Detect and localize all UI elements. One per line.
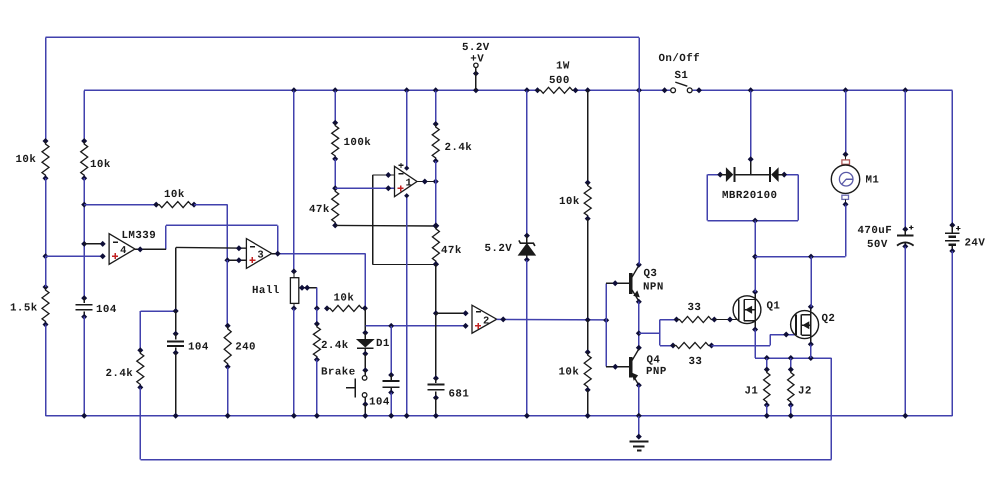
wire comp3 minus input bbox=[176, 246, 247, 249]
svg-text:5.2V: 5.2V bbox=[485, 243, 513, 255]
value label 240 bbox=[235, 341, 256, 353]
wire comp1 output bbox=[417, 181, 436, 183]
svg-text:3: 3 bbox=[257, 250, 263, 262]
pin dot Q4 emitter bbox=[636, 382, 642, 388]
wire comp3 plus input bbox=[227, 259, 246, 261]
capacitor 104 (throttle filter) bbox=[383, 372, 400, 396]
pin dot comp4 minus bbox=[100, 241, 106, 247]
junction comp1 plus tap bbox=[332, 185, 338, 191]
power pin + glyph bbox=[399, 163, 404, 168]
transistor Q4 PNP bbox=[631, 349, 639, 385]
transistor Q3 NPN bbox=[631, 266, 640, 302]
resistor 2.4k (sense divider) bbox=[137, 347, 144, 390]
pin dot comp1 gnd bbox=[404, 193, 409, 198]
svg-text:1.5k: 1.5k bbox=[10, 303, 38, 315]
value label 33 bbox=[689, 356, 703, 368]
wire comp3 output bbox=[272, 253, 366, 255]
value label 100k bbox=[344, 137, 372, 149]
svg-text:Q1: Q1 bbox=[767, 300, 781, 312]
pin dot Q1 drain bbox=[752, 289, 758, 295]
wire comp1 minus loop bbox=[373, 175, 436, 265]
resistor 2.4k (hall load) bbox=[313, 321, 320, 363]
wire 240 chain down bbox=[226, 260, 228, 326]
wire comp2 output bbox=[497, 318, 607, 321]
wire comp2-plus node to cap 104 bbox=[390, 326, 392, 375]
battery 24V bbox=[945, 222, 960, 254]
svg-text:681: 681 bbox=[449, 388, 470, 400]
part label Q2 bbox=[822, 313, 836, 325]
value label 104 bbox=[369, 397, 390, 409]
label +V bbox=[470, 54, 484, 66]
svg-text:5.2V: 5.2V bbox=[462, 42, 490, 54]
wire 2.4k pullup from bus bbox=[435, 90, 437, 124]
resistor 500 1W (supply dropper) bbox=[535, 87, 579, 93]
node comp4 minus input tap bbox=[81, 241, 87, 247]
wire 240 to rail bbox=[227, 367, 229, 416]
wire MBR bottom to Q1 drain bbox=[754, 221, 756, 292]
wire bus after 500 ohm to S1 bbox=[576, 89, 671, 91]
wire Q3 base stub bbox=[606, 282, 629, 284]
capacitor 104 (sense filter) bbox=[167, 311, 184, 356]
zener diode 5.2V bbox=[519, 233, 536, 263]
part label J1 bbox=[745, 385, 759, 397]
svg-text:10k: 10k bbox=[16, 154, 37, 166]
svg-text:1W: 1W bbox=[556, 61, 570, 73]
wire 10k feedback corner down bbox=[194, 205, 227, 261]
wire bottom sense loop bbox=[140, 459, 831, 461]
wire 33 to Q2 gate step bbox=[712, 335, 797, 346]
resistor 47k (ref divider) bbox=[332, 188, 339, 228]
op-amp U1b LM339 comparator 2 bbox=[472, 305, 497, 333]
wire output node to 47k bbox=[435, 182, 437, 226]
wire hall node down to 2.4k bbox=[316, 308, 318, 324]
value label 50V bbox=[867, 239, 888, 251]
wire comp3 minus feed vertical bbox=[175, 247, 177, 311]
svg-text:500: 500 bbox=[549, 75, 570, 87]
svg-text:Brake: Brake bbox=[321, 367, 356, 379]
wire hall output corner down bbox=[316, 288, 318, 309]
part label Q1 bbox=[767, 300, 781, 312]
wire 470uF from bus bbox=[904, 90, 906, 229]
wire 2.4k to output node bbox=[435, 161, 437, 182]
value label 681 bbox=[449, 388, 470, 400]
wire comp1 gnd pin down to rail bbox=[406, 196, 408, 416]
capacitor 681 (ramp) bbox=[427, 375, 444, 400]
wire 10k to comp4 + node bbox=[45, 178, 47, 256]
pin dot Q4 base bbox=[612, 364, 618, 370]
svg-text:100k: 100k bbox=[344, 137, 372, 149]
svg-text:10k: 10k bbox=[559, 196, 580, 208]
mosfet Q2 bbox=[791, 307, 819, 345]
svg-text:+V: +V bbox=[470, 54, 484, 66]
svg-text:2.4k: 2.4k bbox=[321, 340, 349, 352]
svg-text:D1: D1 bbox=[376, 338, 390, 350]
wire driver base column bbox=[605, 283, 607, 366]
capacitor 470uF 50V bbox=[897, 225, 914, 249]
comparator U1d output loop bbox=[166, 225, 278, 254]
svg-text:Q2: Q2 bbox=[822, 313, 836, 325]
svg-text:PNP: PNP bbox=[646, 366, 667, 378]
junction dots on battery bus bbox=[748, 87, 909, 93]
resistor 33 (Q1 gate) bbox=[674, 317, 718, 323]
value label 1W bbox=[556, 61, 570, 73]
wire divider tap to 10k feedback bbox=[84, 204, 156, 206]
wire 2.4k hall to rail bbox=[316, 360, 318, 416]
junction hall output node bbox=[314, 305, 320, 311]
svg-text:104: 104 bbox=[96, 304, 117, 316]
wire left divider drop at x=45 bbox=[45, 37, 47, 141]
wire sense line horizontal bbox=[140, 310, 175, 312]
value label 10k bbox=[334, 293, 355, 305]
svg-text:104: 104 bbox=[188, 341, 209, 353]
terminal +V 5.2V supply bbox=[473, 63, 479, 90]
svg-text:470uF: 470uF bbox=[858, 225, 893, 237]
value label 47k bbox=[309, 204, 330, 216]
svg-text:4: 4 bbox=[120, 245, 126, 257]
pin dot comp4 output bbox=[137, 246, 143, 252]
pin dot comp1 vplus bbox=[404, 166, 409, 171]
wire 681 to rail bbox=[435, 398, 437, 416]
wire comp4 plus input bbox=[46, 255, 103, 257]
wire Q4 base stub bbox=[606, 366, 629, 368]
svg-text:MBR20100: MBR20100 bbox=[722, 190, 777, 202]
wire driver output to gate resistors bbox=[639, 332, 660, 334]
wire bus S1 to battery corner bbox=[692, 89, 952, 91]
pin dot Q3 emitter bbox=[636, 299, 642, 305]
resistor 10k (hall pull-up) bbox=[324, 305, 368, 311]
wire D1 node down bbox=[364, 308, 366, 333]
wire 10k to taps bbox=[83, 178, 85, 298]
wire Q1 source down bbox=[754, 330, 756, 359]
hall sensor body bbox=[290, 271, 298, 308]
diode MBR right bbox=[751, 167, 788, 182]
resistor 47k (integrator) bbox=[432, 222, 439, 267]
wire comp1 vplus from bus bbox=[406, 90, 408, 168]
value label 5.2V bbox=[485, 243, 513, 255]
wire M1 bottom to drain tie bbox=[845, 204, 847, 256]
capacitor 104 (comp4 filter) bbox=[76, 295, 93, 320]
value label 10k bbox=[559, 366, 580, 378]
value label 10k bbox=[16, 154, 37, 166]
resistor 10k (comp4 feedback) bbox=[153, 202, 197, 208]
wire battery to rail corner bbox=[951, 251, 953, 416]
svg-text:2.4k: 2.4k bbox=[445, 142, 473, 154]
mosfet Q1 bbox=[733, 292, 761, 330]
wire 10k chain from bus bbox=[587, 90, 589, 182]
wire brake to rail bbox=[364, 404, 366, 416]
wire 5.2V bus bbox=[84, 89, 537, 91]
wire 1.5k down to ground rail bbox=[45, 256, 47, 416]
resistor 10k (Q4 bias lower) bbox=[584, 349, 591, 393]
value label 500 bbox=[549, 75, 570, 87]
node comp4 minus wire tap bbox=[81, 202, 87, 208]
resistor 240 bbox=[224, 323, 231, 370]
svg-text:2.4k: 2.4k bbox=[106, 368, 134, 380]
resistor 33 (Q2 gate) bbox=[670, 343, 715, 349]
value label 47k bbox=[441, 245, 462, 257]
wire x=84 column top bbox=[83, 90, 85, 141]
wire divider bottom to 47k top node bbox=[335, 224, 436, 227]
wire comp4 output bbox=[135, 248, 166, 250]
value label 24V bbox=[965, 237, 986, 249]
part label J2 bbox=[798, 385, 812, 397]
wire 470uF to rail bbox=[904, 246, 906, 415]
wire sense loop down bbox=[830, 358, 832, 460]
wire drain tie line bbox=[755, 256, 845, 258]
node comp4 plus tap bbox=[43, 253, 49, 259]
wire battery from bus corner bbox=[951, 90, 953, 225]
value label 104 bbox=[96, 304, 117, 316]
wire hall gnd to rail bbox=[293, 308, 295, 415]
wire upper gate line bbox=[660, 319, 677, 321]
wire sense corner down bbox=[139, 311, 141, 350]
pin dot Q4 collector bbox=[636, 345, 642, 351]
value label 104 bbox=[188, 341, 209, 353]
svg-text:2: 2 bbox=[483, 315, 489, 327]
wire comp2 minus input bbox=[436, 312, 466, 314]
svg-text:33: 33 bbox=[688, 302, 702, 314]
pin dot Q2 gate bbox=[783, 332, 789, 338]
pin dot Q2 drain bbox=[808, 304, 814, 310]
svg-text:Hall: Hall bbox=[252, 285, 280, 297]
svg-text:Q3: Q3 bbox=[644, 268, 658, 280]
svg-text:S1: S1 bbox=[675, 70, 689, 82]
svg-text:10k: 10k bbox=[334, 293, 355, 305]
junction comp2 out / divider bbox=[585, 317, 591, 323]
wire Q3 emitter to driver node bbox=[638, 302, 640, 348]
svg-text:10k: 10k bbox=[559, 366, 580, 378]
pin dot Q1 gate bbox=[727, 317, 733, 323]
wire source sense line bbox=[755, 357, 831, 359]
pin dot hall top bbox=[291, 268, 297, 274]
wire top sense wire from node A to S1 output node bbox=[46, 36, 640, 38]
label 5.2V bbox=[462, 42, 490, 54]
value label 2.4k bbox=[445, 142, 473, 154]
wire hall vcc from bus bbox=[293, 90, 295, 271]
motor M1 bbox=[831, 151, 859, 207]
wire cap104 to rail bbox=[175, 353, 177, 416]
junction comp1 output node bbox=[433, 179, 439, 185]
wire zener from bus bbox=[526, 90, 528, 235]
svg-text:47k: 47k bbox=[309, 204, 330, 216]
part label S1 bbox=[675, 70, 689, 82]
label Hall bbox=[252, 285, 280, 297]
pin dot comp2 output bbox=[500, 316, 506, 322]
junction dots on ground rail bbox=[81, 413, 908, 419]
junction J2 top bbox=[788, 355, 794, 361]
svg-text:33: 33 bbox=[689, 356, 703, 368]
pin dot comp1 minus bbox=[385, 172, 391, 178]
wire Q4 emitter to rail bbox=[638, 385, 640, 416]
svg-text:104: 104 bbox=[369, 397, 390, 409]
wire 10k to comp2 out junction bbox=[587, 219, 589, 320]
resistor 100k bbox=[332, 120, 339, 162]
junction driver output bbox=[636, 330, 642, 336]
part label MBR20100 bbox=[722, 190, 777, 202]
junction sense/cap node bbox=[173, 308, 179, 314]
wire comp1 plus input bbox=[335, 187, 394, 189]
wire D1 to brake switch bbox=[364, 354, 366, 370]
value label 2.4k bbox=[106, 368, 134, 380]
pin dot Q3 base bbox=[612, 280, 618, 286]
wire to lower 10k bbox=[587, 320, 589, 352]
wire 2.4k to bottom loop bbox=[139, 387, 141, 459]
wire Q2 source down bbox=[810, 344, 812, 358]
wire cap to rail bbox=[83, 317, 85, 416]
svg-text:1: 1 bbox=[406, 178, 412, 190]
pin dot comp2 minus bbox=[463, 310, 469, 316]
svg-text:J1: J1 bbox=[745, 385, 759, 397]
op-amp U1d LM339 comparator 4 bbox=[109, 234, 135, 265]
label On/Off bbox=[659, 53, 701, 65]
wire comp2 plus net bbox=[365, 325, 465, 327]
junction dots on 5.2V bus bbox=[291, 87, 642, 93]
svg-text:On/Off: On/Off bbox=[659, 53, 701, 65]
wire 100k to divider tap bbox=[334, 159, 336, 188]
wire hall output stub bbox=[299, 287, 317, 289]
diode pack MBR20100 box bbox=[707, 175, 798, 221]
svg-text:10k: 10k bbox=[164, 189, 185, 201]
wire MBR cathode tap from bus bbox=[750, 90, 752, 174]
value label 10k bbox=[559, 196, 580, 208]
jumper J2 bbox=[788, 358, 794, 416]
value label 33 bbox=[688, 302, 702, 314]
wire ground rail bbox=[46, 415, 953, 417]
part label D1 bbox=[376, 338, 390, 350]
wire 100k from bus bbox=[334, 90, 336, 122]
pin dot Q2 source bbox=[808, 341, 814, 347]
part label M1 bbox=[866, 175, 880, 187]
wire comp3 out corner down to 10k bbox=[364, 254, 366, 309]
wire M1 from bus bbox=[845, 90, 847, 154]
wire 10k to rail bbox=[587, 390, 589, 416]
svg-text:NPN: NPN bbox=[643, 282, 664, 294]
svg-text:24V: 24V bbox=[965, 237, 986, 249]
junction J1 top bbox=[764, 355, 770, 361]
resistor 2.4k (comp1 pull-up) bbox=[432, 121, 439, 164]
node driver input bbox=[603, 317, 609, 323]
svg-text:LM339: LM339 bbox=[122, 230, 157, 242]
wire 33 to Q1 gate bbox=[714, 319, 739, 321]
junction comp2 plus / cap node bbox=[388, 323, 394, 329]
wire Q2 drain riser bbox=[810, 257, 812, 307]
pin dot comp2 plus bbox=[463, 323, 469, 329]
pin dot Q1 source bbox=[752, 327, 758, 333]
ground symbol bbox=[629, 416, 648, 451]
pin dot comp4 plus bbox=[100, 253, 106, 259]
wire switched battery to Q3 collector bbox=[638, 37, 640, 264]
pin dot comp3 output bbox=[275, 251, 281, 257]
pin dot comp3 minus bbox=[236, 245, 242, 251]
pin dot Q3 collector bbox=[636, 262, 642, 268]
pin dot comp1 plus bbox=[385, 185, 391, 191]
junction MBR tap bbox=[748, 156, 754, 162]
svg-text:50V: 50V bbox=[867, 239, 888, 251]
part label LM339 bbox=[122, 230, 157, 242]
part label Q4 bbox=[647, 355, 661, 367]
switch Brake (pushbutton) bbox=[346, 367, 369, 407]
value label 1.5k bbox=[10, 303, 38, 315]
part label NPN bbox=[643, 282, 664, 294]
svg-text:47k: 47k bbox=[441, 245, 462, 257]
diode MBR left bbox=[717, 167, 751, 182]
resistor 10k (battery divider upper) bbox=[42, 138, 49, 181]
svg-text:Q4: Q4 bbox=[647, 355, 661, 367]
pin dots hall output bbox=[299, 285, 310, 291]
wire cap to rail bbox=[390, 393, 392, 416]
wire 47k down to comp2 minus bbox=[435, 264, 437, 313]
wire gate resistor riser bbox=[659, 320, 661, 346]
junction Q2 drain tie bbox=[808, 254, 814, 260]
pin dot comp3 plus bbox=[236, 257, 242, 263]
switch S1 On/Off bbox=[662, 82, 702, 93]
svg-text:10k: 10k bbox=[90, 159, 111, 171]
label Brake bbox=[321, 367, 356, 379]
value label 2.4k bbox=[321, 340, 349, 352]
op-amp U1a LM339 comparator 1 bbox=[395, 166, 418, 196]
junction MBR anode bottom bbox=[752, 218, 758, 224]
part label PNP bbox=[646, 366, 667, 378]
wire comp2 minus node down to 681 bbox=[435, 313, 437, 378]
op-amp U1c LM339 comparator 3 bbox=[246, 239, 271, 269]
wire zener to rail bbox=[526, 260, 528, 416]
junction comp3 plus with 240 chain bbox=[224, 257, 230, 263]
junction drain tie bbox=[752, 254, 758, 260]
svg-text:240: 240 bbox=[235, 341, 256, 353]
value label 470uF bbox=[858, 225, 893, 237]
resistor 10k (reference divider upper) bbox=[81, 138, 88, 181]
value label 10k bbox=[164, 189, 185, 201]
pin dot hall bottom bbox=[291, 305, 297, 311]
junction comp2 minus tap bbox=[433, 310, 439, 316]
part label Q3 bbox=[644, 268, 658, 280]
resistor 10k (Q3 bias upper) bbox=[584, 180, 591, 222]
pin dot comp1 output bbox=[422, 179, 428, 185]
resistor 1.5k (battery divider lower) bbox=[42, 284, 49, 328]
svg-text:J2: J2 bbox=[798, 385, 812, 397]
wire comp4 minus input bbox=[84, 243, 103, 245]
wire lower gate line bbox=[660, 345, 673, 347]
value label 10k bbox=[90, 159, 111, 171]
jumper J1 bbox=[764, 358, 770, 416]
svg-text:M1: M1 bbox=[866, 175, 880, 187]
diode D1 bbox=[357, 330, 373, 357]
junction Q2 source bbox=[808, 355, 814, 361]
